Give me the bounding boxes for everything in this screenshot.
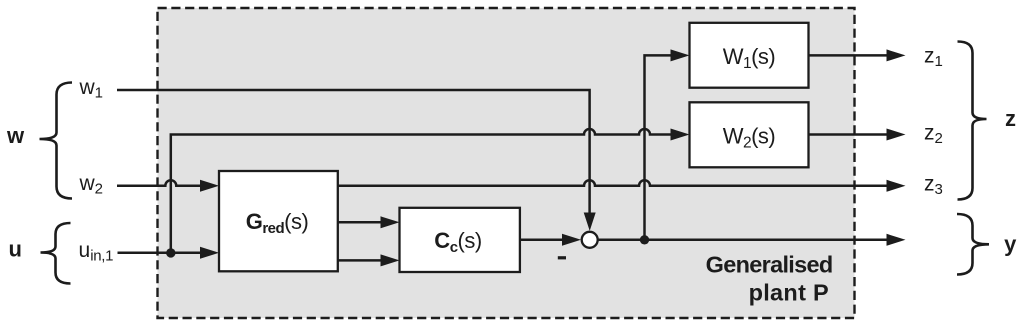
wire u branch up and across to W2 (hops over x=589.5 and x=644.5) xyxy=(171,129,672,253)
svg-text:w2: w2 xyxy=(79,172,104,198)
brace for u input xyxy=(41,223,71,284)
svg-text:z: z xyxy=(1005,106,1016,131)
svg-text:z2: z2 xyxy=(924,121,943,147)
arrowhead w2 into Gred xyxy=(200,180,219,192)
svg-text:Cc(s): Cc(s) xyxy=(434,228,481,256)
arrowhead into W2 xyxy=(671,129,690,141)
block Gred(s) xyxy=(219,171,338,271)
arrowhead into summing junction (right) xyxy=(562,234,581,246)
wire Gred upper output to Cc xyxy=(338,221,382,224)
wire feedback branch up to W1 xyxy=(645,55,673,239)
arrowhead u into Gred xyxy=(200,247,219,259)
svg-text:w: w xyxy=(6,123,25,148)
arrowhead y xyxy=(887,234,906,246)
block W2(s) xyxy=(690,102,809,167)
generalised plant P dashed boundary box xyxy=(158,8,855,318)
wire W1 output to z1 xyxy=(809,54,889,57)
wire Gred lower output to Cc xyxy=(338,259,382,262)
wire y output line xyxy=(598,239,888,242)
svg-text:Generalised: Generalised xyxy=(706,252,833,278)
wire z3 from Gred to output (hops over x=589.5 and x=644.5) xyxy=(338,180,888,186)
arrowhead w1 into summing junction (down) xyxy=(584,213,596,231)
arrowhead z1 xyxy=(887,49,906,61)
svg-text:plant P: plant P xyxy=(749,280,829,306)
wire W2 output to z2 xyxy=(809,133,889,136)
brace for z outputs xyxy=(958,42,987,200)
wire u_in,1 into Gred xyxy=(118,252,203,255)
arrowhead lower into Cc xyxy=(381,254,400,266)
summing junction circle xyxy=(582,232,598,248)
svg-text:y: y xyxy=(1004,231,1017,256)
brace for y output xyxy=(957,214,989,275)
arrowhead upper into Cc xyxy=(381,216,400,228)
arrowhead z3 xyxy=(887,180,906,192)
arrowhead into W1 xyxy=(671,49,690,61)
wire Cc output to summing junction xyxy=(520,239,563,242)
arrowhead z2 xyxy=(887,129,906,141)
block W1(s) xyxy=(690,23,809,88)
wire w1 (horizontal then down into summing junction) xyxy=(117,90,590,213)
junction dot on y line xyxy=(640,235,649,244)
brace for w inputs xyxy=(40,83,73,199)
block Cc(s) xyxy=(400,208,520,272)
wire w2 into Gred (hop over vertical at x=170.8) xyxy=(117,180,202,186)
junction dot on u_in,1 line xyxy=(166,248,175,257)
svg-text:uin,1: uin,1 xyxy=(79,239,114,265)
svg-text:z1: z1 xyxy=(924,45,943,70)
svg-text:w1: w1 xyxy=(79,76,104,102)
svg-text:z3: z3 xyxy=(924,173,943,199)
svg-text:u: u xyxy=(8,237,21,262)
minus sign at summing junction xyxy=(558,256,566,259)
